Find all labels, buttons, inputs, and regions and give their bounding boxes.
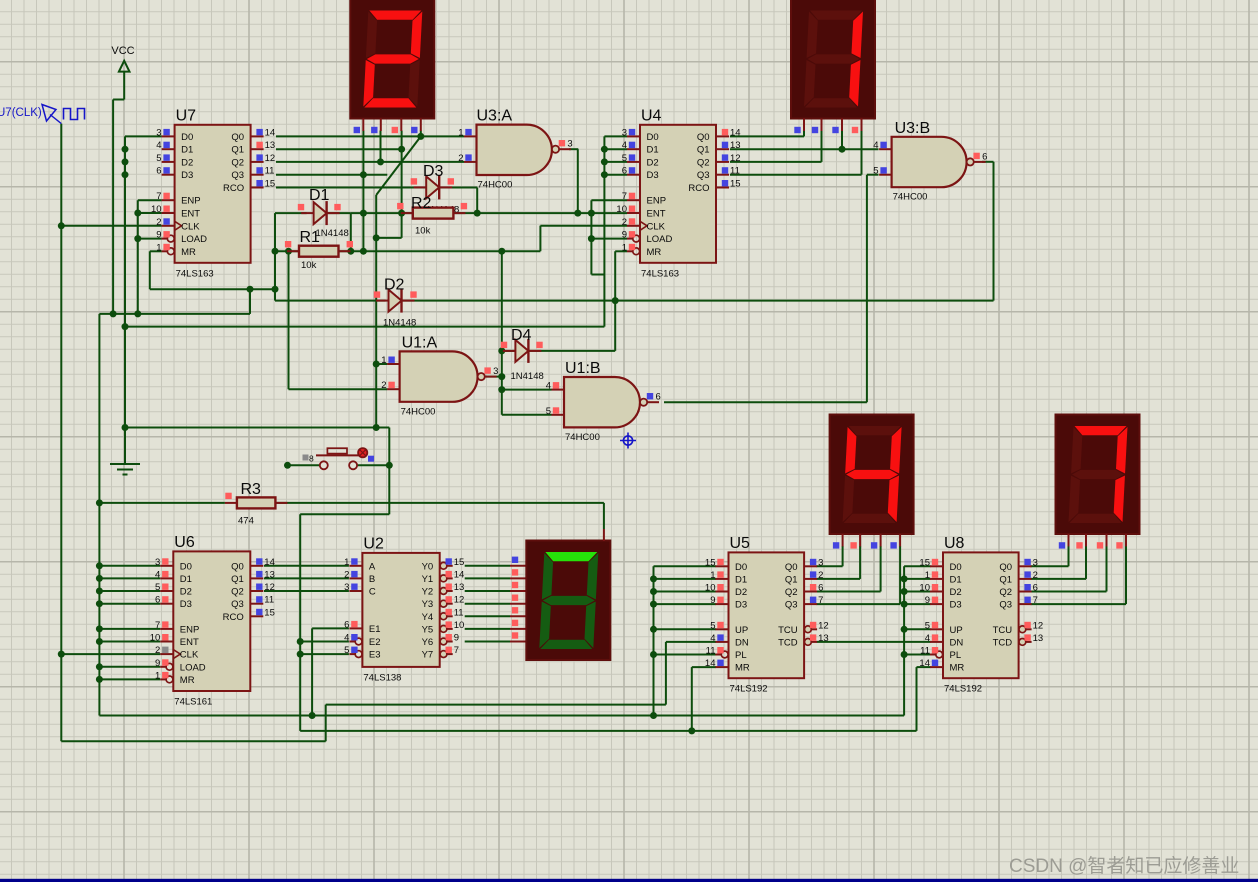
svg-text:D2: D2: [950, 587, 962, 598]
svg-text:9: 9: [454, 633, 459, 644]
svg-text:D0: D0: [180, 561, 192, 572]
svg-text:10: 10: [151, 204, 162, 215]
svg-text:Q0: Q0: [999, 562, 1012, 573]
svg-text:1: 1: [156, 242, 161, 253]
svg-text:D1: D1: [180, 574, 192, 585]
svg-text:MR: MR: [180, 675, 195, 686]
svg-text:Q2: Q2: [999, 587, 1012, 598]
svg-text:PL: PL: [950, 650, 962, 661]
svg-text:14: 14: [730, 127, 741, 138]
svg-text:Q3: Q3: [231, 170, 244, 181]
svg-text:5: 5: [156, 153, 161, 164]
svg-text:5: 5: [873, 166, 878, 177]
svg-text:2: 2: [344, 569, 349, 580]
svg-text:D0: D0: [181, 132, 193, 143]
svg-text:15: 15: [264, 607, 275, 618]
svg-text:74HC00: 74HC00: [565, 432, 600, 443]
svg-text:TCU: TCU: [778, 625, 798, 636]
svg-text:3: 3: [493, 366, 498, 377]
svg-text:1: 1: [710, 570, 715, 581]
svg-text:ENT: ENT: [181, 209, 200, 220]
svg-text:74LS161: 74LS161: [174, 697, 212, 708]
svg-text:1: 1: [381, 355, 386, 366]
svg-text:U8: U8: [944, 535, 965, 552]
svg-text:10: 10: [616, 204, 627, 215]
svg-text:4: 4: [873, 140, 878, 151]
svg-text:7: 7: [454, 645, 459, 656]
svg-text:Q2: Q2: [231, 587, 244, 598]
svg-text:5: 5: [155, 582, 160, 593]
svg-text:Y7: Y7: [422, 650, 434, 661]
svg-text:11: 11: [730, 166, 740, 177]
svg-text:Q2: Q2: [697, 157, 710, 168]
svg-text:U1:B: U1:B: [565, 360, 601, 377]
svg-text:U1:A: U1:A: [402, 334, 438, 351]
svg-text:3: 3: [156, 127, 161, 138]
svg-text:U5: U5: [730, 535, 751, 552]
svg-text:3: 3: [818, 557, 823, 568]
svg-text:2: 2: [818, 570, 823, 581]
svg-text:VCC: VCC: [111, 45, 134, 57]
svg-text:UP: UP: [735, 625, 748, 636]
svg-text:D2: D2: [647, 157, 659, 168]
svg-text:1: 1: [344, 557, 349, 568]
svg-text:PL: PL: [735, 650, 747, 661]
svg-text:74LS192: 74LS192: [944, 684, 982, 695]
svg-text:1: 1: [622, 242, 627, 253]
svg-text:U7(CLK): U7(CLK): [0, 107, 42, 119]
svg-text:D0: D0: [647, 132, 659, 143]
svg-text:ENP: ENP: [181, 196, 201, 207]
svg-text:RCO: RCO: [223, 183, 244, 194]
svg-text:D0: D0: [735, 562, 747, 573]
svg-text:Y1: Y1: [422, 574, 434, 585]
svg-text:10k: 10k: [415, 226, 431, 237]
svg-text:Q0: Q0: [697, 132, 710, 143]
svg-text:MR: MR: [181, 247, 196, 258]
svg-text:D3: D3: [181, 170, 193, 181]
svg-text:7: 7: [818, 595, 823, 606]
svg-text:10: 10: [919, 583, 930, 594]
svg-text:Q1: Q1: [231, 574, 244, 585]
svg-text:11: 11: [265, 166, 275, 177]
svg-text:74HC00: 74HC00: [478, 180, 513, 191]
svg-text:R3: R3: [241, 481, 262, 498]
svg-text:E3: E3: [369, 650, 381, 661]
svg-text:9: 9: [710, 595, 715, 606]
svg-text:12: 12: [264, 582, 275, 593]
svg-text:5: 5: [925, 620, 930, 631]
svg-text:6: 6: [1033, 583, 1038, 594]
svg-text:Q2: Q2: [231, 157, 244, 168]
svg-text:12: 12: [265, 153, 276, 164]
svg-text:13: 13: [265, 140, 276, 151]
svg-text:5: 5: [622, 153, 627, 164]
svg-text:Q3: Q3: [785, 600, 798, 611]
svg-text:MR: MR: [735, 663, 750, 674]
svg-text:D3: D3: [950, 600, 962, 611]
svg-text:E1: E1: [369, 624, 381, 635]
svg-text:474: 474: [238, 516, 254, 527]
svg-text:74LS138: 74LS138: [363, 672, 401, 683]
svg-text:7: 7: [1033, 595, 1038, 606]
svg-text:1N4148: 1N4148: [511, 371, 544, 382]
svg-text:D2: D2: [735, 587, 747, 598]
svg-text:10: 10: [150, 633, 161, 644]
svg-text:Q1: Q1: [231, 145, 244, 156]
svg-text:9: 9: [156, 230, 161, 241]
svg-text:13: 13: [818, 633, 829, 644]
svg-text:13: 13: [454, 582, 465, 593]
svg-text:13: 13: [264, 569, 275, 580]
svg-text:D0: D0: [950, 562, 962, 573]
svg-text:Q3: Q3: [697, 170, 710, 181]
svg-text:MR: MR: [647, 247, 662, 258]
svg-text:4: 4: [925, 633, 930, 644]
svg-text:MR: MR: [950, 663, 965, 674]
svg-text:RCO: RCO: [223, 612, 244, 623]
svg-text:U3:B: U3:B: [895, 120, 931, 137]
svg-text:LOAD: LOAD: [180, 662, 206, 673]
svg-text:13: 13: [730, 140, 741, 151]
svg-text:14: 14: [264, 557, 275, 568]
svg-text:U3:A: U3:A: [477, 108, 513, 125]
svg-text:15: 15: [265, 179, 276, 190]
svg-text:DN: DN: [735, 637, 749, 648]
svg-text:D2: D2: [181, 157, 193, 168]
svg-text:15: 15: [454, 557, 465, 568]
svg-text:5: 5: [344, 645, 349, 656]
svg-text:4: 4: [622, 140, 627, 151]
svg-text:D1: D1: [950, 574, 962, 585]
svg-text:6: 6: [156, 166, 161, 177]
svg-text:2: 2: [156, 217, 161, 228]
svg-text:9: 9: [622, 230, 627, 241]
svg-text:6: 6: [344, 619, 349, 630]
svg-text:D4: D4: [511, 327, 532, 344]
svg-text:10: 10: [454, 620, 465, 631]
svg-text:U4: U4: [641, 107, 662, 124]
svg-text:TCU: TCU: [993, 625, 1013, 636]
svg-text:D3: D3: [735, 600, 747, 611]
svg-text:Y4: Y4: [422, 612, 434, 623]
svg-text:4: 4: [156, 140, 161, 151]
svg-text:8: 8: [309, 454, 314, 464]
svg-text:R1: R1: [300, 229, 321, 246]
svg-text:TCD: TCD: [778, 637, 798, 648]
svg-text:2: 2: [381, 380, 386, 391]
svg-text:6: 6: [982, 151, 987, 162]
svg-text:6: 6: [818, 583, 823, 594]
svg-text:15: 15: [730, 179, 741, 190]
svg-text:Q1: Q1: [697, 145, 710, 156]
svg-text:3: 3: [1033, 557, 1038, 568]
svg-text:1: 1: [155, 670, 160, 681]
svg-text:3: 3: [567, 139, 572, 150]
svg-text:D3: D3: [423, 163, 444, 180]
svg-text:Q1: Q1: [999, 574, 1012, 585]
svg-text:6: 6: [622, 166, 627, 177]
svg-text:CLK: CLK: [180, 650, 199, 661]
svg-text:DN: DN: [950, 637, 964, 648]
svg-text:2: 2: [622, 217, 627, 228]
svg-text:12: 12: [1033, 620, 1044, 631]
svg-text:13: 13: [1033, 633, 1044, 644]
svg-text:11: 11: [920, 646, 930, 657]
svg-text:2: 2: [458, 153, 463, 164]
svg-text:14: 14: [265, 127, 276, 138]
svg-text:ENT: ENT: [180, 637, 199, 648]
svg-text:2: 2: [1033, 570, 1038, 581]
svg-text:74HC00: 74HC00: [893, 192, 928, 203]
svg-text:Y5: Y5: [422, 624, 434, 635]
svg-text:1: 1: [458, 127, 463, 138]
svg-text:1N4148: 1N4148: [383, 318, 416, 329]
svg-text:Q3: Q3: [231, 599, 244, 610]
svg-text:74HC00: 74HC00: [401, 406, 436, 417]
svg-text:10k: 10k: [301, 260, 317, 271]
svg-text:12: 12: [818, 620, 829, 631]
svg-text:74LS192: 74LS192: [730, 684, 768, 695]
svg-text:B: B: [369, 574, 375, 585]
svg-text:3: 3: [155, 557, 160, 568]
svg-text:4: 4: [710, 633, 715, 644]
svg-text:11: 11: [454, 607, 464, 618]
svg-text:D1: D1: [647, 145, 659, 156]
svg-text:9: 9: [925, 595, 930, 606]
svg-text:12: 12: [730, 153, 741, 164]
svg-text:UP: UP: [950, 625, 963, 636]
svg-text:Q0: Q0: [785, 562, 798, 573]
svg-text:ENP: ENP: [647, 196, 667, 207]
svg-text:D1: D1: [735, 574, 747, 585]
svg-text:11: 11: [706, 646, 716, 657]
svg-text:14: 14: [919, 658, 930, 669]
svg-text:Q0: Q0: [231, 132, 244, 143]
svg-text:R2: R2: [411, 195, 432, 212]
svg-text:10: 10: [705, 583, 716, 594]
svg-text:4: 4: [155, 569, 160, 580]
svg-text:5: 5: [710, 620, 715, 631]
svg-text:Q3: Q3: [999, 600, 1012, 611]
svg-text:D1: D1: [309, 187, 330, 204]
svg-text:CSDN @智者知已应修善业: CSDN @智者知已应修善业: [1009, 855, 1239, 877]
svg-text:ENT: ENT: [647, 209, 666, 220]
svg-text:D2: D2: [384, 277, 405, 294]
svg-text:6: 6: [656, 392, 661, 403]
svg-text:D3: D3: [647, 170, 659, 181]
svg-text:3: 3: [622, 127, 627, 138]
svg-text:LOAD: LOAD: [181, 234, 207, 245]
svg-text:12: 12: [454, 595, 465, 606]
svg-text:11: 11: [264, 595, 274, 606]
svg-text:7: 7: [155, 620, 160, 631]
svg-text:TCD: TCD: [993, 637, 1013, 648]
svg-text:D3: D3: [180, 599, 192, 610]
svg-text:7: 7: [156, 191, 161, 202]
svg-text:D2: D2: [180, 587, 192, 598]
svg-text:15: 15: [705, 557, 716, 568]
svg-text:74LS163: 74LS163: [176, 268, 214, 279]
svg-text:C: C: [369, 587, 376, 598]
svg-text:Q2: Q2: [785, 587, 798, 598]
svg-text:74LS163: 74LS163: [641, 268, 679, 279]
svg-text:ENP: ENP: [180, 624, 200, 635]
svg-text:7: 7: [622, 191, 627, 202]
svg-text:1N4148: 1N4148: [316, 228, 349, 239]
svg-text:4: 4: [344, 633, 349, 644]
svg-text:U6: U6: [174, 534, 195, 551]
svg-text:Y3: Y3: [422, 599, 434, 610]
svg-text:CLK: CLK: [181, 221, 200, 232]
svg-text:9: 9: [155, 658, 160, 669]
svg-text:Q0: Q0: [231, 561, 244, 572]
svg-text:1: 1: [925, 570, 930, 581]
svg-text:LOAD: LOAD: [647, 234, 673, 245]
svg-text:D1: D1: [181, 145, 193, 156]
svg-text:CLK: CLK: [647, 221, 666, 232]
svg-text:RCO: RCO: [688, 183, 709, 194]
svg-text:U7: U7: [176, 107, 197, 124]
svg-text:Y6: Y6: [422, 637, 434, 648]
svg-text:A: A: [369, 561, 376, 572]
svg-text:Y0: Y0: [422, 561, 434, 572]
svg-text:Q1: Q1: [785, 574, 798, 585]
svg-text:2: 2: [155, 645, 160, 656]
svg-text:U2: U2: [363, 535, 384, 552]
svg-text:4: 4: [546, 381, 551, 392]
svg-text:3: 3: [344, 582, 349, 593]
svg-text:5: 5: [546, 406, 551, 417]
svg-text:6: 6: [155, 595, 160, 606]
svg-text:15: 15: [919, 557, 930, 568]
svg-text:14: 14: [454, 569, 465, 580]
svg-text:14: 14: [705, 658, 716, 669]
svg-text:Y2: Y2: [422, 587, 434, 598]
svg-text:E2: E2: [369, 637, 381, 648]
